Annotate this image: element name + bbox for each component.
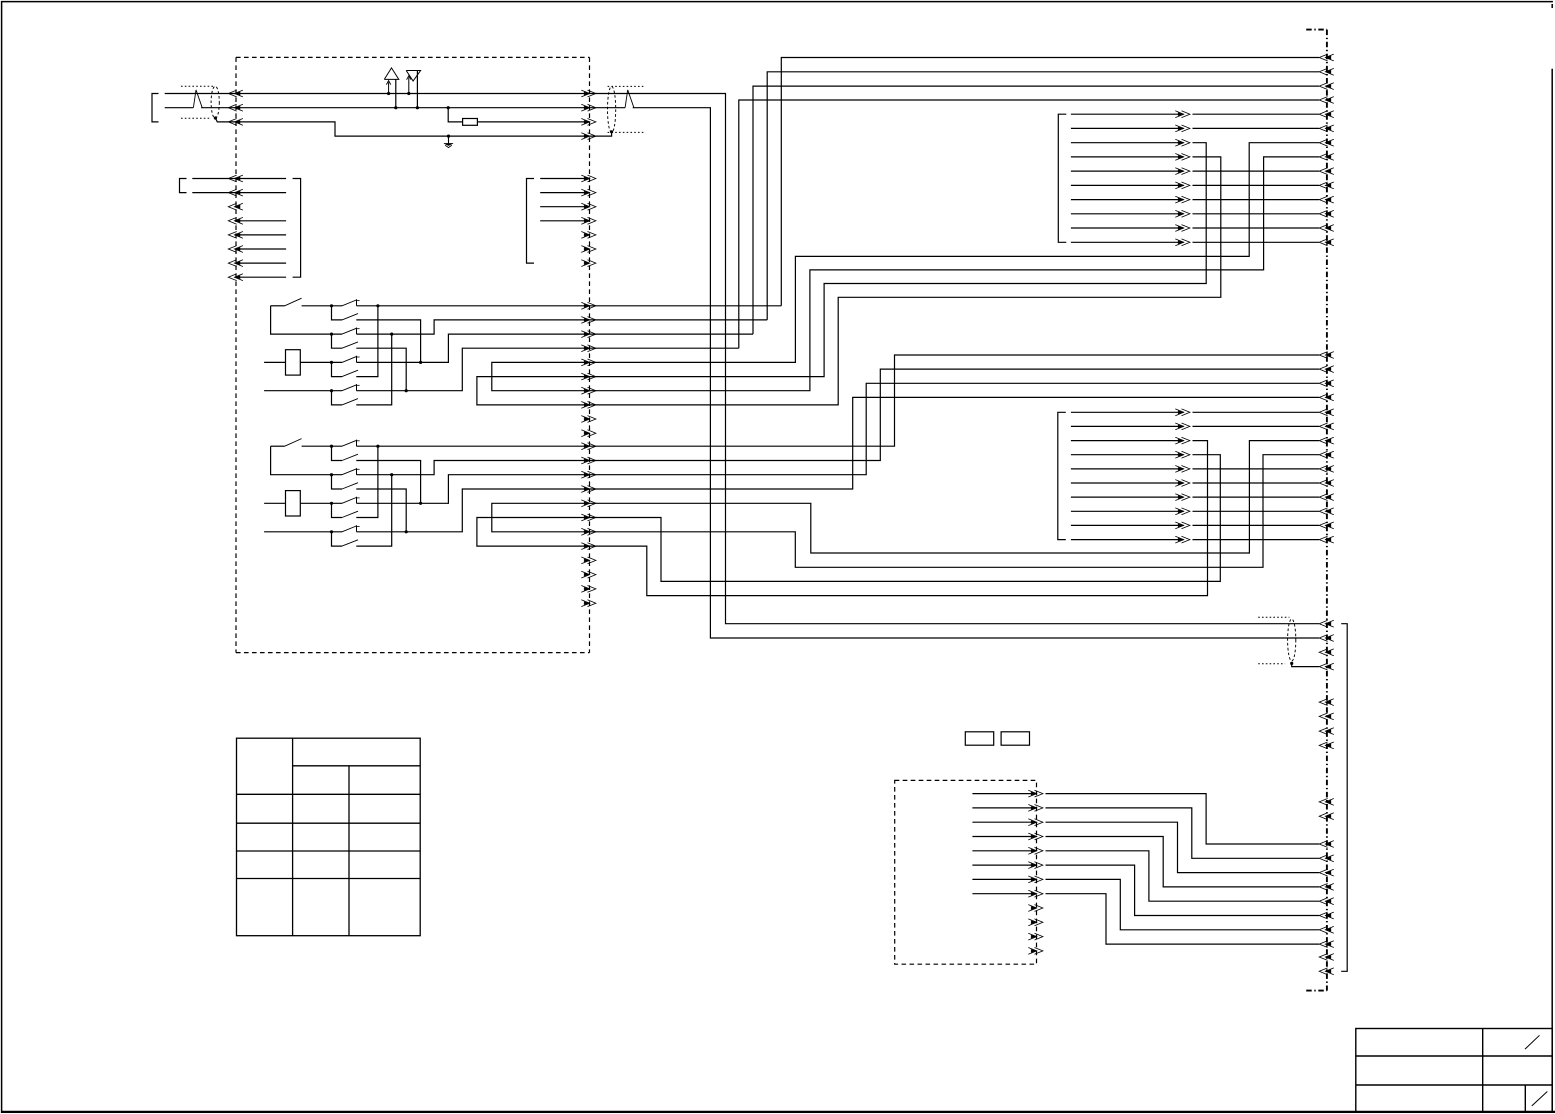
enclosure dashed box bbox=[236, 57, 590, 652]
wire M1-1 bbox=[192, 178, 286, 180]
connector X2 bracket bbox=[293, 179, 301, 278]
wire X5 rows5-10 bbox=[1193, 469, 1320, 540]
surge arrester F2 triangle down bbox=[406, 71, 420, 82]
contact K2.2 NC blade bbox=[342, 469, 356, 475]
contact K2.4 NC blade bbox=[342, 526, 356, 532]
wire S2 row7 lead bbox=[264, 531, 342, 533]
coil K1 lead bbox=[264, 361, 285, 363]
wire S2 row5 out bbox=[357, 475, 590, 504]
cable W1 bundle bracket bbox=[152, 94, 159, 122]
wire S2 row8 route bbox=[590, 441, 1208, 596]
wire S2 row6 tie bbox=[356, 446, 378, 517]
wire device row3 route bbox=[1046, 822, 1320, 872]
junction S1 r1 bbox=[376, 304, 379, 307]
field connector dash-dot line bbox=[1306, 30, 1327, 991]
switch S1 lead bbox=[271, 305, 285, 307]
cable W1 twisted pair bbox=[193, 90, 202, 108]
cable W1b twisted pair bbox=[625, 90, 634, 108]
wire S1 row7 route bbox=[590, 157, 1320, 391]
junction S2 r3 bbox=[390, 473, 393, 476]
contact K1.1 junction bbox=[330, 304, 333, 307]
enclosure right chevrons (S2) bbox=[581, 443, 596, 607]
contact K2.4 link bbox=[332, 532, 343, 546]
wire X4 row2 bbox=[1193, 127, 1320, 129]
wire S1 row4 riser link bbox=[590, 347, 739, 349]
title block slash 2 bbox=[1532, 1092, 1548, 1106]
contact K1.3 NC blade bbox=[342, 357, 356, 363]
wire S1 row8 tie bbox=[356, 334, 391, 405]
coil K2 lead bbox=[264, 502, 285, 504]
contact K2.1 link bbox=[332, 446, 343, 460]
junction S2 r5 bbox=[419, 502, 422, 505]
wire W1 drain left bbox=[215, 118, 236, 122]
cable W1 sheath dotted box bbox=[181, 86, 215, 118]
wire M1-2 bbox=[192, 192, 286, 194]
contact K1.2 NC blade bbox=[342, 328, 356, 334]
wire W1-1 inside bbox=[236, 93, 590, 95]
label box 1 bbox=[965, 732, 993, 745]
X5 stub wires bbox=[1071, 412, 1184, 539]
wire S2 row1 route bbox=[590, 355, 1320, 446]
label box 2 bbox=[1001, 732, 1029, 745]
enclosure left chevrons (W1 entry) bbox=[228, 90, 243, 125]
wire W1b drain bbox=[590, 132, 612, 136]
wire S1 row8 route bbox=[590, 157, 1221, 405]
wire device row8 route bbox=[1046, 894, 1320, 944]
switch S2 blade bbox=[285, 439, 302, 447]
enclosure left chevrons (M1) bbox=[228, 175, 243, 281]
contact K1.4 NO blade bbox=[342, 399, 358, 405]
wire S1 row1 riser link bbox=[590, 305, 782, 307]
wire W1-1 to field bbox=[590, 94, 1320, 624]
field chevrons (bus) bbox=[1319, 54, 1334, 103]
wire X4 rows5-10 bbox=[1193, 171, 1320, 242]
contact K1.1 NC blade bbox=[342, 300, 356, 306]
cable W3 shield bbox=[1288, 619, 1296, 661]
title block slash 1 bbox=[1525, 1035, 1540, 1049]
wire S1 row7 out bbox=[357, 348, 590, 391]
wire S2 row7 out bbox=[357, 489, 590, 532]
wire W1 drain inside bbox=[236, 122, 590, 136]
contact K1.4 junction bbox=[330, 389, 333, 392]
contact K1.2 link bbox=[332, 334, 343, 348]
contact K2.1 junction bbox=[330, 445, 333, 448]
wire S1 row6 tie bbox=[356, 306, 378, 377]
junction on W1-1 b bbox=[407, 92, 410, 95]
wire S2 row2 route bbox=[590, 369, 1320, 460]
wire S2 row7 route bbox=[590, 455, 1320, 568]
contact K1.2 NO blade bbox=[342, 342, 358, 348]
surge arrester F1 arrow bbox=[388, 82, 390, 93]
wire X4 row1 bbox=[1193, 113, 1320, 115]
wire S2 row8 tie bbox=[356, 475, 391, 546]
contact K2.3 link bbox=[332, 503, 343, 517]
wire S2 row5 route bbox=[590, 441, 1320, 553]
wire S2 spare link 6-8 bbox=[477, 518, 590, 547]
wire W1-2 to field bbox=[590, 107, 626, 109]
wire S1 row5 out bbox=[357, 334, 590, 362]
wire S1 row6 route bbox=[590, 143, 1207, 377]
wire S1 row1-row3 link bbox=[271, 306, 342, 334]
contact K1.4 link bbox=[332, 391, 343, 405]
revision table bbox=[237, 738, 421, 936]
device dashed box bbox=[895, 780, 1037, 964]
wire S2 row2-to-row5 bbox=[356, 461, 420, 504]
connector X3 bracket bbox=[527, 179, 535, 264]
wire S2 row1 out bbox=[357, 445, 590, 447]
surge arrester F2 lead bbox=[416, 71, 418, 108]
field chevrons (X5 rows) bbox=[1319, 409, 1334, 543]
resistor R1 branch bbox=[447, 106, 450, 109]
bus wire 2 bbox=[767, 72, 1319, 320]
cable W1 shield bbox=[211, 86, 219, 118]
wire coil K1 out bbox=[300, 361, 342, 363]
wire S2 row4-to-row7 bbox=[356, 489, 406, 532]
cable W2 bracket bbox=[180, 179, 187, 193]
wire device row4 route bbox=[1046, 837, 1320, 887]
junction S1 r3 bbox=[390, 333, 393, 336]
connector X4 bracket bbox=[1058, 114, 1066, 242]
enclosure right chevrons (S1) bbox=[581, 302, 596, 436]
wire coil K2 out bbox=[300, 502, 342, 504]
contact K1.3 link bbox=[332, 362, 343, 376]
wire device row6 route bbox=[1046, 865, 1320, 915]
bus wire 4 bbox=[739, 100, 1319, 348]
wire S2 row1 bbox=[302, 445, 342, 447]
contact K2.4 junction bbox=[330, 530, 333, 533]
contact K2.3 junction bbox=[330, 502, 333, 505]
field chevrons (spare C) bbox=[1319, 954, 1334, 975]
connector X6 bracket bbox=[1341, 624, 1347, 972]
junction S2 r7 bbox=[405, 530, 408, 533]
surge arrester F2 arrow bbox=[408, 77, 410, 93]
wire S1 row3 riser link bbox=[590, 333, 754, 335]
X5 chevrons bbox=[1175, 409, 1190, 543]
device chevrons bbox=[1028, 790, 1043, 954]
contact K2.2 link bbox=[332, 475, 343, 489]
wire S1 row3 out bbox=[357, 320, 590, 334]
coil K2 bbox=[286, 491, 301, 516]
wire device row2 route bbox=[1046, 808, 1320, 858]
switch S2 lead bbox=[271, 445, 285, 447]
wire S2 row6 route bbox=[590, 455, 1221, 582]
enclosure right chevrons (M1) bbox=[581, 175, 596, 266]
wire S1 row2-to-row5 bbox=[356, 320, 420, 363]
junction S1 r7 bbox=[405, 389, 408, 392]
contact K2.3 NC blade bbox=[342, 498, 356, 504]
field chevrons (spare A) bbox=[1319, 699, 1334, 749]
cable W3 sheath dotted box bbox=[1258, 617, 1289, 664]
contact K1.1 NO blade bbox=[342, 314, 358, 320]
cable W1b sheath dotted box bbox=[608, 86, 645, 132]
wire X5 row1 bbox=[1193, 411, 1320, 413]
wire S1 row7 lead bbox=[264, 390, 342, 392]
surge arrester F1 lead bbox=[395, 79, 397, 107]
ground junction bbox=[447, 135, 450, 138]
contact K2.3 NO blade bbox=[342, 511, 358, 517]
wire W3 drain bbox=[1292, 663, 1319, 666]
wire device row7 route bbox=[1046, 879, 1320, 929]
surge arrester F1 triangle up bbox=[384, 68, 399, 80]
cable W1b shield junction bbox=[610, 130, 613, 133]
wire S2 row1-row3 link bbox=[271, 446, 342, 475]
wire S1 row2 riser link bbox=[590, 319, 768, 321]
field chevrons (S2 routes) bbox=[1319, 352, 1334, 401]
cable W1b shield bbox=[608, 86, 616, 132]
title block bbox=[1356, 1029, 1552, 1113]
contact K2.2 junction bbox=[330, 473, 333, 476]
bus wire 1 bbox=[781, 58, 1319, 306]
wire S2 spare link 5-7 bbox=[492, 503, 590, 532]
wire W1-1 left bbox=[165, 93, 236, 95]
wire S1 row1 out bbox=[357, 305, 590, 307]
resistor R1 bbox=[463, 119, 478, 126]
junction on W1-2 b bbox=[416, 106, 419, 109]
field chevrons (cable W3) bbox=[1319, 620, 1334, 670]
wires M1-4..8 bbox=[240, 221, 286, 277]
junction on W1-2 bbox=[394, 106, 397, 109]
contact K2.1 NO blade bbox=[342, 454, 358, 460]
contact K2.2 NO blade bbox=[342, 483, 358, 489]
contact K1.1 link bbox=[332, 306, 343, 320]
wire S1 spare link 6-8 bbox=[477, 377, 590, 405]
wire S2 row3 out bbox=[357, 461, 590, 475]
wire W1-2 inside bbox=[236, 107, 590, 109]
wire S1 row5 route bbox=[590, 143, 1320, 363]
coil K1 bbox=[286, 350, 301, 375]
X4 chevrons bbox=[1175, 111, 1190, 246]
contact K1.4 NC blade bbox=[342, 385, 356, 391]
switch S1 blade bbox=[285, 298, 302, 306]
cable W1 shield junction bbox=[214, 116, 217, 119]
contact K2.4 NO blade bbox=[342, 540, 358, 546]
wire S1 row4-to-row7 bbox=[356, 348, 406, 391]
field chevrons (X4 rows) bbox=[1319, 111, 1334, 246]
X4 stub wires bbox=[1071, 114, 1184, 242]
wire R1 to connector bbox=[477, 121, 589, 123]
field chevrons (spare B) bbox=[1319, 799, 1334, 820]
device wires bbox=[972, 794, 1036, 894]
contact K1.3 NO blade bbox=[342, 370, 358, 376]
wire S1 row1 bbox=[302, 305, 342, 307]
connector X5 bracket bbox=[1058, 412, 1066, 539]
junction S1 r5 bbox=[419, 361, 422, 364]
bus wire 3 bbox=[753, 86, 1319, 334]
wire W1-2 left bbox=[165, 107, 194, 109]
cable W3 shield junction bbox=[1290, 662, 1293, 665]
wire S2 row3 route bbox=[590, 383, 1320, 474]
wires X3 1..4 bbox=[540, 179, 589, 221]
wire S2 row4 route bbox=[590, 397, 1320, 489]
ground symbol bbox=[444, 136, 453, 148]
enclosure right chevrons (W1 exit) bbox=[581, 90, 596, 139]
contact K1.2 junction bbox=[330, 333, 333, 336]
contact K1.3 junction bbox=[330, 361, 333, 364]
wire device row1 route bbox=[1046, 794, 1320, 844]
wire X5 row2 bbox=[1193, 425, 1320, 427]
field chevrons (device rows) bbox=[1319, 841, 1334, 948]
junction on W1-1 bbox=[387, 92, 390, 95]
junction S2 r1 bbox=[376, 445, 379, 448]
wire device row5 route bbox=[1046, 851, 1320, 901]
contact K2.1 NC blade bbox=[342, 440, 356, 446]
wire S1 spare link 5-7 bbox=[492, 362, 590, 390]
